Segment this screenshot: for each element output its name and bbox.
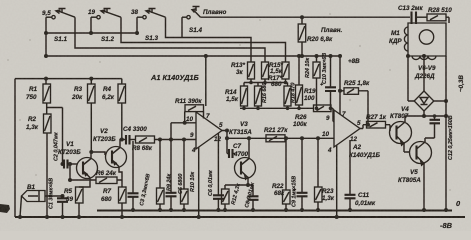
node dot C9 top xyxy=(300,136,304,140)
node dot V3 collector xyxy=(247,136,251,140)
resistor R27 xyxy=(360,114,390,131)
node dot bus x160 xyxy=(158,138,162,142)
wire V4 collector xyxy=(405,116,446,122)
capacitor C13 xyxy=(398,5,427,24)
transistor V5 xyxy=(398,142,432,185)
resistor R13 xyxy=(231,62,255,79)
node dot bot bus a xyxy=(242,107,246,111)
capacitor C11 xyxy=(345,140,376,210)
capacitor C7 xyxy=(227,143,249,158)
wire -8V top feed line xyxy=(15,78,122,80)
node dot bus x137 xyxy=(135,31,139,35)
node dot C3 rail xyxy=(131,208,135,212)
resistor R12 xyxy=(222,183,242,210)
wire B1 left to -8V xyxy=(20,196,22,217)
bridge rectifier V6-V9 xyxy=(414,65,436,111)
transistor V2 xyxy=(93,128,127,168)
node dot R25 tap xyxy=(338,89,342,93)
resistor R26 xyxy=(293,105,334,128)
node dot R12 rail xyxy=(223,208,227,212)
wire R11 right to pin7 xyxy=(203,112,205,119)
node dot R23 rail xyxy=(316,208,320,212)
switch S1.4 xyxy=(182,7,227,35)
node dot C10 top xyxy=(329,54,333,58)
node dot V3 emitter xyxy=(246,183,250,187)
node dot bot bus d xyxy=(297,107,301,111)
motor M1 xyxy=(389,23,446,60)
resistor R5 xyxy=(64,187,83,203)
wire -8V bottom rail xyxy=(15,216,465,218)
head B1 xyxy=(22,184,46,202)
resistor R8 xyxy=(132,136,155,152)
resistor R4 xyxy=(102,79,126,103)
node dot rail C12 line xyxy=(444,114,448,118)
wire A1 pin4 to -8V xyxy=(198,147,200,217)
wire V2 emitter to R6/R7 xyxy=(119,167,122,188)
wire B1 right to C1/C2 column xyxy=(45,195,63,197)
wire S1.3 output staircase xyxy=(166,17,252,62)
capacitor C8 xyxy=(244,182,258,210)
wire V1 collector to V2 base xyxy=(90,152,92,159)
wire V2 base from left xyxy=(104,154,107,156)
node dot A1 pin4 rail xyxy=(197,215,201,219)
wire R4 bottom to C4 node xyxy=(121,103,123,140)
node dot C9 rail xyxy=(300,208,304,212)
node dot bus x171 xyxy=(169,138,173,142)
resistor R16 xyxy=(255,83,269,106)
capacitor C2 xyxy=(54,132,78,168)
node dot mid bus c xyxy=(284,81,288,85)
transistor V1 xyxy=(58,141,98,179)
resistor R14 xyxy=(225,86,248,106)
wire V2 collector up xyxy=(120,140,122,148)
node dot V2 collector node xyxy=(120,138,124,142)
wire V3 emitter bus xyxy=(225,178,253,186)
node dot R10 top xyxy=(182,138,186,142)
wire network bottom bus xyxy=(240,105,314,108)
switch S1.3 xyxy=(131,9,166,43)
node dot pin10/R11 xyxy=(183,121,187,125)
node dot R22 rail xyxy=(284,208,288,212)
switch S1.1 xyxy=(42,9,75,44)
node dot C10 bottom xyxy=(329,107,333,111)
node dot bus x91 xyxy=(89,31,93,35)
resistor R2 xyxy=(26,114,51,133)
resistor R3 xyxy=(71,79,95,103)
capacitor C6 xyxy=(208,133,224,210)
node dot rail bridge xyxy=(444,99,448,103)
wire A2 pin4 to -8V xyxy=(336,145,338,217)
wire R5 bottom xyxy=(78,203,80,217)
transistor V4 xyxy=(390,106,412,145)
wire +8V rail xyxy=(46,55,341,57)
resistor R10 xyxy=(181,140,197,211)
wire 0V rail xyxy=(97,209,452,211)
resistor R1 xyxy=(26,79,51,103)
resistor R19 xyxy=(296,56,317,105)
wire riser S1.2 feed xyxy=(90,17,92,33)
node dot R10 rail xyxy=(182,208,186,212)
capacitor C10 xyxy=(320,53,336,109)
node dot R23 top xyxy=(316,136,320,140)
resistor R23 xyxy=(315,138,335,210)
wire S1.4 left tap xyxy=(181,17,183,37)
wire R1-R2 junction xyxy=(47,103,63,164)
node dot R20 bottom xyxy=(300,54,304,58)
node dot C12 top xyxy=(433,114,437,118)
wire R3 bottom to V2 base line xyxy=(91,103,105,155)
capacitor C1 xyxy=(49,178,69,217)
node dot R3 top xyxy=(89,77,93,81)
resistor R21 xyxy=(264,127,288,142)
node dot R25/R27 junction xyxy=(366,123,370,127)
node dot C5 rail xyxy=(169,208,173,212)
capacitor C9 xyxy=(292,138,308,210)
resistor R20 xyxy=(298,17,342,56)
ink smudge bottom-left margin xyxy=(0,204,10,213)
wire bridge left from motor xyxy=(408,56,414,101)
wire switch common bus xyxy=(46,32,137,34)
node dot R22 top xyxy=(284,136,288,140)
node dot C2 junction xyxy=(61,162,65,166)
node dot A2 pin4 rail xyxy=(335,215,339,219)
wire A1 pin10 input line xyxy=(171,123,196,140)
node dot A1 supply xyxy=(204,54,208,58)
node dot B1 rail xyxy=(18,215,22,219)
node dot C6 rail xyxy=(216,208,220,212)
resistor R6 xyxy=(70,170,122,184)
op-amp A2 xyxy=(322,110,380,159)
node dot R6 left xyxy=(68,178,72,182)
node dot bot bus b xyxy=(256,107,260,111)
node dot C11 rail xyxy=(348,208,352,212)
resistor R15 xyxy=(262,62,284,79)
node dot R9 rail xyxy=(158,208,162,212)
resistor R7 xyxy=(101,187,126,203)
node dot R2 bottom rail xyxy=(45,215,49,219)
op-amp A1 xyxy=(186,112,223,154)
resistor R11 xyxy=(175,98,204,123)
capacitor C3 xyxy=(128,141,152,211)
node dot R1 top xyxy=(44,77,48,81)
node dot bus x46 xyxy=(44,31,48,35)
node dot R24 bottom xyxy=(315,107,319,111)
wire R2 bottom to -8V xyxy=(46,133,48,217)
wire R7 bottom xyxy=(121,203,123,217)
wire V1 emitter to R5 xyxy=(79,178,90,188)
node dot C8 rail xyxy=(251,208,255,212)
resistor R28 xyxy=(427,7,452,23)
wire riser S1.3 feed xyxy=(136,17,138,33)
resistor R22 xyxy=(272,138,290,210)
node dot C1 rail xyxy=(61,215,65,219)
node dot R19 top xyxy=(297,54,301,58)
node dot right rail 0 xyxy=(444,208,448,212)
resistor R25 xyxy=(340,80,370,125)
wire +8V to A2 pin7 xyxy=(339,56,341,115)
wire +8V to A1 supply xyxy=(205,56,207,106)
node dot V5 rail xyxy=(422,208,426,212)
capacitor C4 xyxy=(122,126,148,145)
wire signal bus to A1 pin9 xyxy=(155,139,197,141)
wire bridge right to rail xyxy=(434,100,446,102)
resistor R24 xyxy=(305,56,320,108)
wire network mid bus xyxy=(244,79,288,86)
wire V1 base column xyxy=(69,164,71,180)
node dot R5 rail xyxy=(77,215,81,219)
node dot V1 collector xyxy=(89,150,93,154)
node dot motor BL xyxy=(406,54,410,58)
resistor R18 xyxy=(284,83,297,106)
node dot A2 supply xyxy=(338,54,342,58)
node dot +8V x46 xyxy=(44,54,48,58)
wire V3 collector xyxy=(248,138,250,158)
wire S1.2 output staircase xyxy=(121,17,286,62)
wire top motor feed line from S1.4 xyxy=(201,16,411,18)
capacitor C12 xyxy=(425,115,454,160)
node dot R20 top xyxy=(300,15,304,19)
resistor R17 xyxy=(268,62,289,88)
node dot R7 rail xyxy=(120,215,124,219)
node dot R24 top xyxy=(315,54,319,58)
wire bridge top to motor xyxy=(423,56,425,91)
wire right rail xyxy=(445,56,447,210)
switch S1.2 xyxy=(88,9,121,44)
capacitor C5 xyxy=(166,140,185,211)
resistor R9 xyxy=(157,140,173,211)
node dot mid bus a xyxy=(249,81,253,85)
wire S1.1 output staircase xyxy=(75,17,265,62)
node dot V1 base xyxy=(68,162,72,166)
node dot bridge out xyxy=(422,114,426,118)
wire bridge bottom xyxy=(423,111,425,116)
node dot out line start xyxy=(225,136,229,140)
node dot bot bus c xyxy=(286,107,290,111)
wire V5 emitter to 0 rail xyxy=(423,164,425,211)
node dot A1 out drop xyxy=(225,129,229,133)
wire V4 emitter to V5 base xyxy=(404,144,410,153)
wire A1 output xyxy=(222,131,334,154)
node dot column x62.5 xyxy=(61,194,65,198)
node dot motor bottom tap xyxy=(422,54,426,58)
paper speck noise xyxy=(7,13,451,191)
node dot mid bus b xyxy=(263,81,267,85)
wire -8V left riser xyxy=(14,79,16,217)
wire riser S1.1 feed xyxy=(45,17,47,56)
transistor V3 xyxy=(229,121,256,179)
